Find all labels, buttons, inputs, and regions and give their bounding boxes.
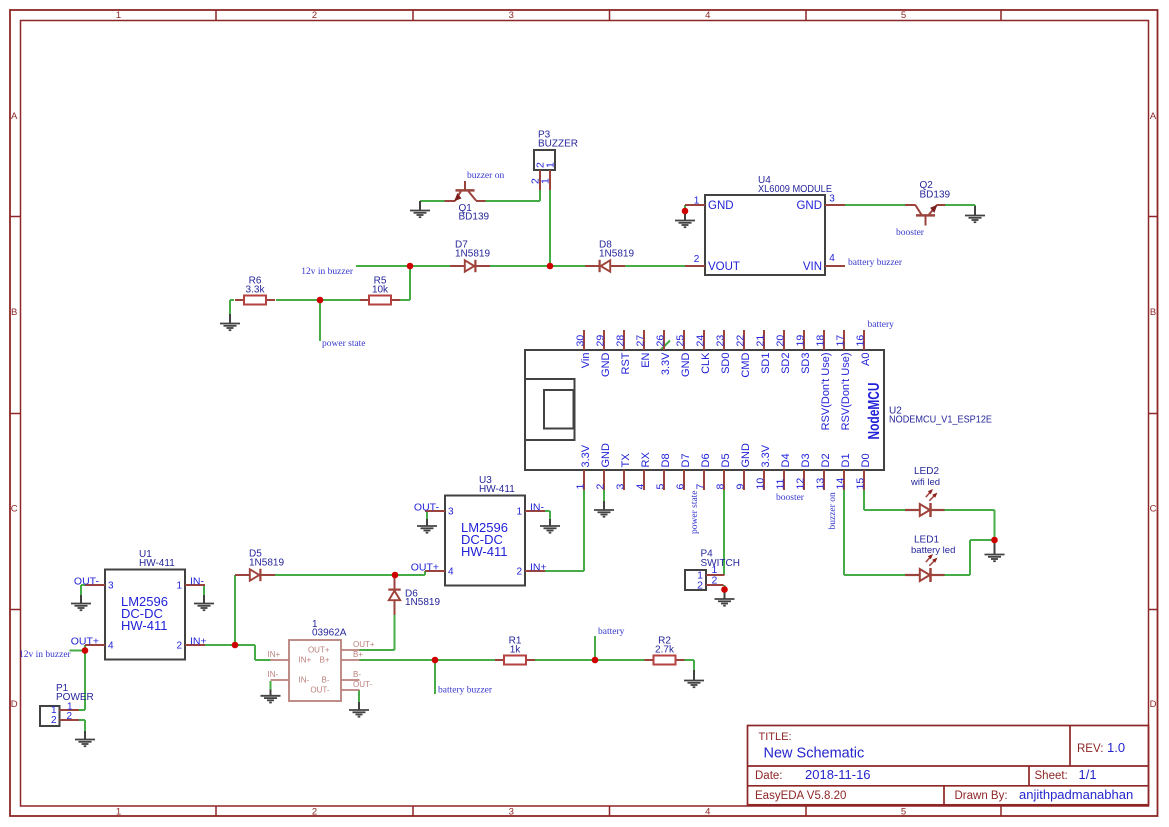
svg-text:RX: RX [640, 452, 652, 468]
svg-text:GND: GND [740, 443, 752, 468]
svg-text:11: 11 [775, 478, 787, 489]
svg-text:2: 2 [712, 575, 718, 587]
svg-text:B-: B- [353, 670, 361, 679]
svg-text:BUZZER: BUZZER [538, 139, 578, 150]
svg-text:New Schematic: New Schematic [764, 746, 865, 762]
svg-text:B: B [11, 307, 17, 318]
svg-text:4: 4 [635, 484, 647, 490]
svg-text:D5: D5 [720, 453, 732, 467]
svg-text:wifi led: wifi led [910, 477, 940, 488]
svg-text:5: 5 [655, 484, 667, 490]
svg-text:2: 2 [694, 254, 700, 265]
svg-text:EN: EN [640, 352, 652, 367]
svg-text:4: 4 [829, 253, 835, 264]
svg-text:buzzer on: buzzer on [467, 171, 504, 181]
svg-text:3: 3 [829, 194, 835, 205]
svg-text:26: 26 [655, 335, 667, 347]
svg-text:RSV(Don't Use): RSV(Don't Use) [840, 353, 852, 431]
svg-text:24: 24 [695, 335, 707, 347]
svg-text:D1: D1 [840, 453, 852, 467]
svg-text:1: 1 [116, 10, 121, 21]
svg-text:2: 2 [67, 711, 73, 722]
svg-text:B+: B+ [319, 656, 329, 665]
svg-text:RST: RST [620, 352, 632, 374]
svg-text:booster: booster [896, 228, 925, 238]
svg-text:1N5819: 1N5819 [249, 558, 284, 569]
svg-text:HW-411: HW-411 [461, 544, 507, 559]
svg-text:1: 1 [516, 506, 522, 517]
svg-text:B-: B- [322, 676, 330, 685]
svg-text:1: 1 [540, 178, 552, 184]
svg-text:power state: power state [690, 490, 700, 534]
svg-text:LED1: LED1 [914, 535, 939, 546]
svg-text:16: 16 [855, 335, 867, 347]
svg-text:TX: TX [620, 453, 632, 468]
svg-text:SWITCH: SWITCH [701, 558, 740, 569]
svg-text:19: 19 [795, 335, 807, 347]
svg-text:BD139: BD139 [920, 190, 951, 201]
svg-text:15: 15 [855, 478, 867, 490]
svg-text:booster: booster [776, 493, 805, 503]
svg-text:SD2: SD2 [780, 353, 792, 374]
svg-text:A: A [1150, 111, 1157, 122]
svg-text:4: 4 [448, 566, 454, 577]
svg-text:battery buzzer: battery buzzer [848, 258, 903, 268]
svg-text:HW-411: HW-411 [479, 484, 515, 495]
svg-text:IN+: IN+ [190, 636, 207, 648]
svg-text:B+: B+ [353, 650, 363, 659]
svg-text:Sheet:: Sheet: [1035, 770, 1068, 782]
svg-text:POWER: POWER [56, 692, 94, 703]
svg-text:21: 21 [755, 335, 767, 347]
svg-text:3.3V: 3.3V [760, 444, 772, 467]
svg-text:10: 10 [755, 478, 767, 490]
svg-text:1/1: 1/1 [1079, 767, 1097, 782]
svg-text:25: 25 [675, 335, 687, 347]
svg-text:1.0: 1.0 [1107, 740, 1125, 755]
svg-text:battery led: battery led [911, 545, 955, 556]
svg-text:12v in buzzer: 12v in buzzer [19, 650, 72, 660]
svg-text:BD139: BD139 [459, 212, 490, 223]
svg-text:B: B [1150, 307, 1156, 318]
svg-text:NODEMCU_V1_ESP12E: NODEMCU_V1_ESP12E [889, 415, 992, 426]
svg-text:power state: power state [322, 339, 366, 349]
svg-text:battery: battery [868, 320, 895, 330]
svg-text:5: 5 [901, 807, 906, 818]
svg-text:03962A: 03962A [312, 628, 347, 639]
svg-text:2: 2 [312, 807, 317, 818]
svg-text:Vin: Vin [580, 353, 592, 369]
svg-text:13: 13 [815, 478, 827, 490]
svg-text:4: 4 [705, 10, 710, 21]
svg-text:C: C [11, 504, 18, 515]
svg-text:Date:: Date: [755, 770, 783, 782]
svg-text:OUT+: OUT+ [411, 562, 439, 574]
svg-text:OUT-: OUT- [310, 686, 329, 695]
svg-text:CLK: CLK [700, 352, 712, 374]
svg-text:VIN: VIN [803, 261, 822, 273]
svg-text:D0: D0 [860, 453, 872, 467]
svg-text:OUT+: OUT+ [308, 646, 330, 655]
svg-text:TITLE:: TITLE: [759, 731, 792, 743]
svg-text:17: 17 [835, 335, 847, 347]
svg-text:IN-: IN- [530, 502, 545, 514]
svg-text:6: 6 [675, 484, 687, 490]
svg-text:2018-11-16: 2018-11-16 [805, 767, 871, 782]
svg-text:2: 2 [516, 566, 522, 577]
svg-text:7: 7 [695, 484, 707, 490]
svg-text:battery buzzer: battery buzzer [438, 686, 493, 696]
svg-text:1: 1 [116, 807, 121, 818]
svg-text:20: 20 [775, 335, 787, 347]
svg-text:10k: 10k [372, 285, 389, 296]
svg-text:XL6009 MODULE: XL6009 MODULE [758, 184, 832, 195]
svg-text:23: 23 [715, 335, 727, 347]
svg-text:A: A [11, 111, 18, 122]
svg-text:28: 28 [615, 335, 627, 347]
svg-text:2: 2 [595, 484, 607, 490]
svg-text:EasyEDA V5.8.20: EasyEDA V5.8.20 [755, 790, 846, 802]
svg-text:1k: 1k [510, 645, 522, 656]
svg-text:1N5819: 1N5819 [599, 249, 634, 260]
svg-text:OUT-: OUT- [74, 576, 100, 588]
svg-text:1: 1 [575, 484, 587, 490]
svg-text:30: 30 [575, 335, 587, 347]
svg-text:18: 18 [815, 335, 827, 347]
svg-text:IN+: IN+ [530, 562, 547, 574]
svg-text:1N5819: 1N5819 [455, 249, 490, 260]
svg-text:8: 8 [715, 484, 727, 490]
svg-text:D6: D6 [700, 453, 712, 467]
svg-text:GND: GND [708, 200, 734, 212]
svg-text:VOUT: VOUT [708, 261, 740, 273]
svg-text:buzzer on: buzzer on [828, 492, 838, 529]
svg-text:4: 4 [108, 640, 114, 651]
svg-text:SD3: SD3 [800, 353, 812, 374]
svg-text:OUT+: OUT+ [353, 640, 375, 649]
svg-text:3: 3 [509, 807, 514, 818]
svg-text:3: 3 [509, 10, 514, 21]
svg-text:CMD: CMD [740, 352, 752, 377]
svg-text:SD0: SD0 [720, 353, 732, 374]
svg-text:3.3V: 3.3V [580, 444, 592, 467]
svg-text:D4: D4 [780, 453, 792, 467]
svg-text:IN+: IN+ [268, 650, 281, 659]
svg-text:D3: D3 [800, 453, 812, 467]
svg-text:D: D [11, 699, 18, 710]
svg-text:3.3V: 3.3V [660, 352, 672, 375]
svg-text:1: 1 [176, 580, 182, 591]
svg-text:14: 14 [835, 478, 847, 490]
svg-text:IN+: IN+ [299, 656, 312, 665]
svg-text:3: 3 [448, 506, 454, 517]
svg-text:GND: GND [680, 352, 692, 377]
svg-text:GND: GND [600, 443, 612, 468]
svg-text:1N5819: 1N5819 [405, 597, 440, 608]
svg-text:A0: A0 [860, 353, 872, 366]
svg-text:2: 2 [176, 640, 182, 651]
svg-text:SD1: SD1 [760, 353, 772, 374]
svg-text:D: D [1150, 699, 1157, 710]
svg-text:3.3k: 3.3k [246, 285, 266, 296]
svg-text:2: 2 [697, 580, 703, 592]
svg-text:27: 27 [635, 335, 647, 347]
svg-text:Drawn By:: Drawn By: [955, 790, 1008, 802]
svg-text:IN-: IN- [299, 676, 310, 685]
svg-text:5: 5 [901, 10, 906, 21]
svg-text:22: 22 [735, 335, 747, 347]
svg-text:OUT+: OUT+ [71, 636, 99, 648]
svg-text:OUT-: OUT- [353, 680, 372, 689]
svg-text:D2: D2 [820, 453, 832, 467]
svg-text:3: 3 [108, 580, 114, 591]
svg-text:NodeMCU: NodeMCU [866, 383, 883, 440]
svg-text:9: 9 [735, 484, 747, 490]
svg-text:2.7k: 2.7k [655, 645, 675, 656]
svg-text:LED2: LED2 [914, 466, 939, 477]
svg-text:HW-411: HW-411 [139, 558, 175, 569]
svg-text:battery: battery [598, 627, 625, 637]
svg-text:OUT-: OUT- [414, 502, 440, 514]
svg-text:GND: GND [796, 200, 822, 212]
svg-text:3: 3 [615, 484, 627, 490]
svg-text:REV:: REV: [1077, 743, 1103, 755]
svg-text:12v in buzzer: 12v in buzzer [301, 267, 354, 277]
svg-text:2: 2 [312, 10, 317, 21]
svg-text:12: 12 [795, 478, 807, 490]
svg-text:IN-: IN- [268, 670, 279, 679]
svg-text:GND: GND [600, 352, 612, 377]
svg-text:IN-: IN- [190, 576, 205, 588]
svg-text:1: 1 [694, 196, 700, 207]
svg-text:D7: D7 [680, 453, 692, 467]
svg-text:anjithpadmanabhan: anjithpadmanabhan [1019, 787, 1133, 802]
svg-text:D8: D8 [660, 453, 672, 467]
svg-text:1: 1 [545, 162, 557, 168]
svg-text:HW-411: HW-411 [121, 618, 167, 633]
svg-text:C: C [1150, 504, 1157, 515]
svg-text:RSV(Don't Use): RSV(Don't Use) [820, 353, 832, 431]
svg-text:4: 4 [705, 807, 710, 818]
svg-text:29: 29 [595, 335, 607, 347]
svg-text:2: 2 [51, 715, 57, 726]
